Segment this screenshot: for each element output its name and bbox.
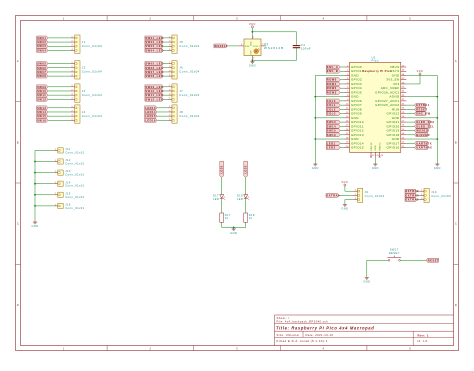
- svg-text:BUZZER: BUZZER: [416, 133, 430, 137]
- wire to J4 pin 1: [48, 107, 71, 109]
- wire to J1 pin 1: [48, 37, 71, 39]
- ground below U3: [249, 60, 256, 67]
- svg-text:3: 3: [347, 74, 348, 76]
- svg-text:Conn_01x03: Conn_01x03: [431, 194, 451, 198]
- svg-text:9: 9: [347, 99, 348, 101]
- svg-text:Conn_01x03: Conn_01x03: [365, 194, 385, 198]
- wire D17 cathode to R17: [221, 198, 223, 213]
- svg-text:SW13: SW13: [327, 120, 336, 124]
- global label U1 GPIO17 net UART0TX: [414, 141, 427, 145]
- global label U1 GPIO3 net ROW1: [326, 82, 340, 86]
- svg-text:4: 4: [241, 44, 242, 46]
- svg-text:100nF: 100nF: [301, 46, 311, 50]
- svg-text:1: 1: [347, 65, 348, 67]
- svg-text:RESET: RESET: [416, 107, 427, 111]
- svg-text:32: 32: [402, 99, 405, 101]
- wire down to GND at SW17: [366, 260, 368, 276]
- wire to J4 pin 4: [48, 119, 71, 121]
- global label U1 GPIO20 net OLED_SCL: [414, 124, 430, 128]
- wire to J1 pin 4: [48, 49, 71, 51]
- svg-text:SW09: SW09: [37, 85, 46, 89]
- wire LED2 to U1: [340, 147, 344, 149]
- global label U1 GPIO18 net BUZZER: [414, 133, 427, 137]
- wire to J1 pin 3: [48, 45, 71, 47]
- wire ROW3 to U1: [340, 91, 344, 93]
- global label J10 pin1 net EXTRA3: [405, 189, 417, 193]
- global label J3 pin2 net SW10: [37, 89, 48, 93]
- svg-text:27: 27: [402, 120, 405, 122]
- svg-text:Date: 2021-10-10: Date: 2021-10-10: [306, 333, 334, 337]
- wire U1 GPIO22 to label: [406, 113, 414, 115]
- wire SW17 to RESET label: [400, 259, 426, 261]
- wire C4 to U3 VSS node: [253, 59, 296, 61]
- global label U1 GPIO19 net WS2812: [414, 129, 427, 133]
- global label U1 GPIO11 net SW14: [326, 124, 340, 128]
- svg-text:SW03: SW03: [37, 44, 46, 48]
- svg-text:J12: J12: [65, 158, 71, 162]
- svg-text:SW10: SW10: [37, 89, 46, 93]
- global label J2 pin2 net SW06: [37, 66, 48, 70]
- global label net LED1 to D17: [220, 161, 224, 177]
- svg-text:28: 28: [402, 116, 405, 118]
- wire ENC_A to U1: [340, 66, 344, 68]
- global label J4 pin1 net SW13: [37, 106, 48, 110]
- svg-text:COL0: COL0: [327, 99, 336, 103]
- global label J7 pin2 net SW10_LED: [145, 89, 164, 93]
- svg-text:2: 2: [72, 110, 73, 112]
- svg-text:3: 3: [169, 115, 170, 117]
- svg-text:LED: LED: [237, 197, 243, 201]
- svg-text:25: 25: [402, 129, 405, 131]
- wire U3 VDD to VCC: [251, 30, 253, 35]
- svg-text:4: 4: [347, 78, 348, 80]
- svg-text:1: 1: [55, 149, 56, 151]
- svg-text:2: 2: [169, 110, 170, 112]
- wire down to C4 top plate: [296, 32, 298, 45]
- connector J11 Conn_01x01: [58, 148, 63, 153]
- svg-text:21: 21: [402, 146, 405, 148]
- svg-text:1: 1: [55, 193, 56, 195]
- wire to J7 pin 4: [163, 98, 168, 100]
- svg-text:2: 2: [262, 44, 263, 46]
- wire to J2 pin 1: [48, 63, 71, 65]
- svg-text:2: 2: [72, 89, 73, 91]
- svg-text:OLED_SDA: OLED_SDA: [416, 120, 435, 124]
- global label U1 GPIO15 net LED2: [326, 146, 340, 150]
- svg-text:R17: R17: [225, 213, 231, 217]
- wire GND bus for J11-J16: [34, 150, 36, 220]
- svg-text:LED13: LED13: [145, 106, 156, 110]
- svg-text:1: 1: [421, 190, 422, 192]
- svg-text:8: 8: [347, 95, 348, 97]
- svg-text:1: 1: [55, 204, 56, 206]
- capacitor C4 100nF: [293, 46, 300, 48]
- junction left GND bus pin 8: [314, 96, 316, 98]
- svg-text:GND: GND: [230, 231, 237, 235]
- wire LED1 to D17 anode: [221, 177, 223, 194]
- wire to J5 pin 2: [163, 41, 168, 43]
- svg-text:35: 35: [402, 86, 405, 88]
- svg-text:4: 4: [323, 16, 325, 20]
- svg-text:ENC_A: ENC_A: [327, 65, 339, 69]
- svg-text:Conn_01x04: Conn_01x04: [82, 70, 102, 74]
- svg-text:37: 37: [402, 78, 405, 80]
- svg-text:LED2: LED2: [327, 146, 336, 150]
- wire to J6 pin 1: [163, 63, 168, 65]
- global label U1 GPIO0 net ENC_A: [326, 65, 340, 69]
- svg-text:SW17: SW17: [390, 248, 399, 252]
- svg-text:SW01_LED: SW01_LED: [145, 36, 163, 40]
- title block: [275, 315, 454, 346]
- svg-text:Conn_01x01: Conn_01x01: [65, 206, 84, 210]
- global label net LED2 to D18: [244, 161, 248, 177]
- wire SW16 to U1: [340, 134, 344, 136]
- global label J1 pin3 net SW03: [37, 44, 48, 48]
- global label U1 GPIO4 net ROW2: [326, 86, 340, 90]
- svg-text:ROW3: ROW3: [327, 90, 337, 94]
- svg-text:3: 3: [72, 115, 73, 117]
- wire SW17 left contact: [367, 259, 388, 261]
- junction GND bus at J14: [34, 183, 36, 185]
- svg-text:Conn_01x04: Conn_01x04: [179, 44, 199, 48]
- svg-text:1: 1: [72, 62, 73, 64]
- ground below J9: [341, 203, 348, 210]
- global label J6 pin1 net SW05_LED: [145, 62, 164, 66]
- wire LED2 to D18 anode: [245, 177, 247, 194]
- wire ENC_B to U1: [340, 70, 344, 72]
- wire EXTRA5 to J10 pin 3: [417, 199, 420, 201]
- svg-text:SW05_LED: SW05_LED: [145, 62, 163, 66]
- wire SW14 to U1: [340, 125, 344, 127]
- svg-text:R18: R18: [249, 213, 255, 217]
- svg-text:43: 43: [381, 155, 384, 157]
- junction LED GND node: [233, 227, 235, 229]
- junction GND bus at J12: [34, 161, 36, 163]
- ground left of U1: [312, 163, 319, 170]
- global label J9 pin2 net EXTRA0: [326, 194, 339, 198]
- global label U1 RUN net RESET: [414, 107, 425, 111]
- wire to J12: [35, 161, 54, 163]
- svg-text:1: 1: [63, 16, 65, 20]
- connector J10 Conn_01x03: [424, 188, 429, 202]
- global label U1 GPIO8 net COL2: [326, 107, 340, 111]
- global label J1 pin4 net SW04: [37, 49, 48, 53]
- svg-text:1k: 1k: [225, 216, 229, 220]
- svg-text:4: 4: [72, 49, 73, 51]
- global label U1 GPIO12 net SW15: [326, 129, 340, 133]
- svg-text:31: 31: [402, 103, 405, 105]
- svg-text:C: C: [455, 222, 457, 226]
- wire left GND bus of U1: [315, 75, 344, 162]
- svg-text:30: 30: [402, 108, 405, 110]
- junction right GND bus AGND: [436, 96, 438, 98]
- global label J1 pin2 net SW02: [37, 40, 48, 44]
- LED D17: [220, 195, 226, 201]
- svg-text:4: 4: [72, 119, 73, 121]
- junction GND bus at J13: [34, 172, 36, 174]
- svg-text:SW16: SW16: [327, 133, 336, 137]
- svg-text:SW14: SW14: [37, 110, 46, 114]
- VCC power flag at J9: [342, 180, 349, 188]
- svg-text:GND: GND: [32, 224, 39, 228]
- svg-text:RESET: RESET: [389, 251, 400, 255]
- wire VCC to C4: [252, 31, 296, 33]
- global label U1 GPIO26_ADC0 net EXTRA1: [414, 103, 425, 107]
- svg-text:1: 1: [253, 37, 254, 39]
- svg-text:4: 4: [169, 98, 170, 100]
- connector J3 Conn_01x04: [75, 84, 80, 102]
- svg-text:UART0RX: UART0RX: [416, 146, 432, 150]
- svg-text:LED14: LED14: [145, 110, 156, 114]
- svg-text:EXTRA0: EXTRA0: [327, 193, 341, 197]
- wire R17 to GND rail: [221, 222, 223, 227]
- junction right GND bus pin 28: [436, 117, 438, 119]
- wire COL3 to U1: [340, 113, 344, 115]
- no-connect cross on SWCLK: [370, 156, 372, 158]
- wire to J5 pin 4: [163, 49, 168, 51]
- svg-text:C: C: [17, 222, 19, 226]
- svg-text:SW04: SW04: [37, 48, 46, 52]
- svg-text:ENC_SW: ENC_SW: [416, 112, 430, 116]
- wire to J8 pin 3: [157, 115, 168, 117]
- global label J7 pin1 net SW09_LED: [145, 85, 164, 89]
- svg-text:WS2812: WS2812: [416, 129, 429, 133]
- wire U3 VSS to GND: [251, 59, 253, 61]
- svg-text:VCC: VCC: [417, 69, 424, 73]
- svg-text:ENC_B: ENC_B: [327, 69, 339, 73]
- wire U1 GPIO19 to label: [406, 130, 414, 132]
- global label J8 pin4 net LED16: [145, 118, 157, 122]
- svg-text:10: 10: [346, 103, 349, 105]
- global label U1 GPIO14 net LED1: [326, 141, 340, 145]
- svg-text:SW03_LED: SW03_LED: [145, 44, 163, 48]
- global label J4 pin2 net SW14: [37, 110, 48, 114]
- wire EXTRA4 to J10 pin 2: [417, 194, 420, 196]
- connector J1 Conn_01x04: [75, 35, 80, 53]
- svg-text:3: 3: [72, 70, 73, 72]
- junction GND bus at J16: [34, 205, 36, 207]
- global label J8 pin2 net LED14: [145, 110, 157, 114]
- wire to J5 pin 1: [163, 37, 168, 39]
- svg-text:GND: GND: [434, 166, 441, 170]
- wire to J3 pin 4: [48, 98, 71, 100]
- svg-text:40: 40: [402, 65, 405, 67]
- svg-text:SW11: SW11: [37, 93, 46, 97]
- wire R18 to GND rail: [245, 222, 247, 227]
- svg-text:A: A: [455, 59, 457, 63]
- wire EXTRA0 to J9 pin2: [339, 194, 353, 196]
- global label J2 pin1 net SW05: [37, 62, 48, 66]
- connector J13 Conn_01x01: [58, 170, 63, 175]
- global label U1 GPIO21 net OLED_SDA: [414, 120, 430, 124]
- svg-text:4: 4: [72, 75, 73, 77]
- global label U1 GPIO7 net COL1: [326, 103, 340, 107]
- wire to J13: [35, 172, 54, 174]
- svg-text:SW15: SW15: [327, 129, 336, 133]
- svg-text:J14: J14: [65, 180, 71, 184]
- svg-text:GND: GND: [375, 145, 377, 151]
- svg-text:GND: GND: [312, 166, 319, 170]
- svg-text:36: 36: [402, 82, 405, 84]
- wire to J2 pin 4: [48, 75, 71, 77]
- wire down to GND at J9: [344, 200, 346, 203]
- svg-text:B: B: [455, 140, 457, 144]
- svg-text:ROW0: ROW0: [327, 78, 337, 82]
- global label U1 GPIO13 net SW16: [326, 133, 340, 137]
- wire COL0 to U1: [340, 100, 344, 102]
- svg-text:2: 2: [72, 66, 73, 68]
- resistor R18 1k: [244, 213, 248, 222]
- wire U1 GPIO20 to label: [406, 125, 414, 127]
- connector J6 Conn_01x04: [172, 61, 177, 79]
- wire to J4 pin 2: [48, 111, 71, 113]
- global label J7 pin3 net SW11_LED: [145, 93, 164, 97]
- svg-text:OLED_SCL: OLED_SCL: [416, 124, 434, 128]
- wire WSDATA to U3 DIN: [228, 45, 239, 47]
- global label U1 GPIO5 net ROW3: [326, 91, 340, 95]
- connector J7 Conn_01x04: [172, 84, 177, 102]
- wire to J2 pin 2: [48, 67, 71, 69]
- global label U1 GPIO9 net COL3: [326, 112, 340, 116]
- svg-text:1: 1: [355, 190, 356, 192]
- wire ROW0 to U1: [340, 79, 344, 81]
- no-connect cross on SWDIO: [379, 156, 381, 158]
- svg-text:Conn_01x04: Conn_01x04: [82, 114, 102, 118]
- svg-text:4: 4: [72, 98, 73, 100]
- svg-text:1: 1: [169, 62, 170, 64]
- wire EXTRA3 to J10 pin 1: [417, 190, 420, 192]
- U1 bottom debug pins SWCLK GND SWDIO: [371, 142, 384, 157]
- svg-text:GND: GND: [363, 279, 370, 283]
- global label J3 pin4 net SW12: [37, 97, 48, 101]
- svg-text:Conn_01x01: Conn_01x01: [65, 150, 84, 154]
- svg-text:LED1: LED1: [327, 141, 336, 145]
- global label J3 pin3 net SW11: [37, 93, 48, 97]
- wire ROW2 to U1: [340, 87, 344, 89]
- svg-text:16: 16: [346, 129, 349, 131]
- wire to J3 pin 1: [48, 86, 71, 88]
- wire U1 GPIO16 to label: [406, 147, 414, 149]
- svg-text:11: 11: [346, 108, 349, 110]
- global label U1 GPIO1 net ENC_B: [326, 69, 340, 73]
- svg-text:2: 2: [169, 40, 170, 42]
- svg-text:13: 13: [346, 116, 349, 118]
- svg-text:22: 22: [402, 142, 405, 144]
- svg-text:3: 3: [236, 346, 238, 350]
- svg-text:SW06: SW06: [37, 66, 46, 70]
- svg-text:41: 41: [372, 155, 375, 157]
- svg-text:GPIO16: GPIO16: [387, 146, 400, 150]
- global label WSDATA: [214, 44, 228, 48]
- svg-text:7: 7: [347, 91, 348, 93]
- svg-text:2: 2: [169, 89, 170, 91]
- svg-text:14: 14: [346, 120, 349, 122]
- global label J2 pin4 net SW08: [37, 74, 48, 78]
- wire to J3 pin 3: [48, 94, 71, 96]
- wire to J11: [35, 149, 54, 151]
- svg-text:34: 34: [402, 91, 405, 93]
- svg-text:2: 2: [149, 16, 151, 20]
- connector J12 Conn_01x01: [58, 159, 63, 164]
- resistor R17 1k: [220, 213, 224, 222]
- connector J8 Conn_01x04: [172, 105, 177, 123]
- svg-text:RESET: RESET: [428, 258, 439, 262]
- svg-text:SW02: SW02: [37, 40, 46, 44]
- svg-text:29: 29: [402, 112, 405, 114]
- svg-text:KiCad E.D.A. kicad (5.1.10)-1: KiCad E.D.A. kicad (5.1.10)-1: [277, 339, 328, 343]
- wire joining D17/D18 branches: [222, 226, 246, 228]
- wire from C4 bottom plate: [296, 48, 298, 60]
- svg-text:2: 2: [421, 194, 422, 196]
- wire U1 RUN to label: [406, 108, 414, 110]
- ground below U1: [372, 163, 379, 170]
- wire LED1 to U1: [340, 142, 344, 144]
- svg-text:SW06_LED: SW06_LED: [145, 66, 163, 70]
- wire J9 pin3 to GND: [345, 199, 353, 201]
- microcontroller board U1 Raspberry Pi Pico: [350, 62, 401, 152]
- global label U1 GPIO22 net ENC_SW: [414, 112, 425, 116]
- svg-text:Conn_01x01: Conn_01x01: [65, 162, 84, 166]
- svg-text:3: 3: [236, 16, 238, 20]
- global label J2 pin3 net SW07: [37, 70, 48, 74]
- svg-text:20: 20: [346, 146, 349, 148]
- VCC power flag above U3: [249, 22, 256, 30]
- LED D18: [244, 195, 250, 201]
- svg-text:Conn_01x04: Conn_01x04: [82, 93, 102, 97]
- svg-text:Conn_01x01: Conn_01x01: [65, 195, 84, 199]
- svg-text:SWCLK: SWCLK: [371, 142, 373, 151]
- wire to J4 pin 3: [48, 115, 71, 117]
- global label J10 pin2 net EXTRA4: [405, 194, 417, 198]
- svg-text:LED: LED: [213, 197, 219, 201]
- wire COL2 to U1: [340, 108, 344, 110]
- svg-text:3: 3: [72, 94, 73, 96]
- svg-text:18: 18: [346, 137, 349, 139]
- svg-text:15: 15: [346, 125, 349, 127]
- svg-text:33: 33: [402, 95, 405, 97]
- connector J14 Conn_01x01: [58, 181, 63, 186]
- global label U1 GPIO2 net ROW0: [326, 78, 340, 82]
- svg-text:SW13: SW13: [37, 106, 46, 110]
- wire SW13 to U1: [340, 121, 344, 123]
- svg-text:J16: J16: [65, 203, 71, 207]
- svg-text:SW01: SW01: [37, 36, 46, 40]
- push button SW17 RESET: [387, 256, 401, 262]
- svg-text:VCC: VCC: [249, 22, 256, 26]
- svg-text:2: 2: [347, 70, 348, 72]
- connector J9 Conn_01x03: [358, 188, 363, 202]
- svg-text:1: 1: [55, 171, 56, 173]
- svg-text:Conn_01x04: Conn_01x04: [179, 93, 199, 97]
- wire to J8 pin 1: [157, 107, 168, 109]
- wire to J3 pin 2: [48, 90, 71, 92]
- svg-text:SW05: SW05: [37, 62, 46, 66]
- svg-text:File: 4x4_backpack_RP2040.sch: File: 4x4_backpack_RP2040.sch: [277, 320, 329, 324]
- svg-text:4: 4: [169, 119, 170, 121]
- U1 left pins with names and numbers: [344, 65, 364, 150]
- junction GND / C4 branch: [252, 59, 254, 61]
- wire to J7 pin 2: [163, 90, 168, 92]
- svg-text:24: 24: [402, 133, 405, 135]
- svg-text:1: 1: [72, 36, 73, 38]
- svg-text:3: 3: [355, 198, 356, 200]
- svg-text:ROW1: ROW1: [327, 82, 337, 86]
- svg-text:Conn_01x01: Conn_01x01: [65, 173, 84, 177]
- wire to J1 pin 2: [48, 41, 71, 43]
- wire to J7 pin 1: [163, 86, 168, 88]
- ground below D17/D18: [230, 227, 237, 234]
- svg-text:GND: GND: [341, 206, 348, 210]
